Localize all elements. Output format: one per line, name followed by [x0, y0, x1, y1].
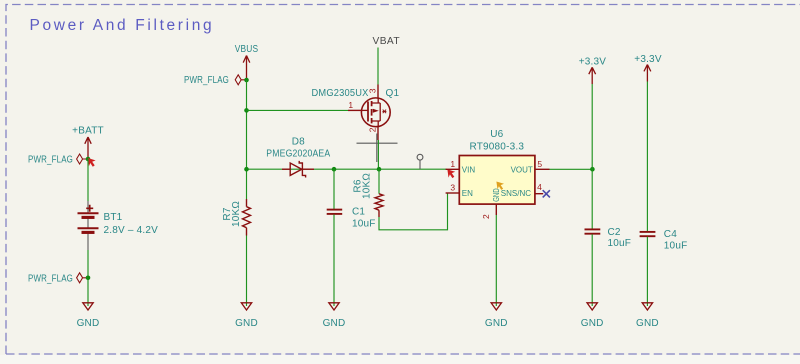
- svg-text:C4: C4: [664, 229, 677, 240]
- svg-text:VIN: VIN: [462, 166, 476, 175]
- resistor R7: [222, 199, 251, 236]
- svg-text:+BATT: +BATT: [72, 126, 104, 137]
- svg-text:GND: GND: [235, 318, 258, 329]
- svg-text:GND: GND: [77, 318, 100, 329]
- wire +3.3V to C4: [646, 82, 648, 232]
- graphic cross (black): [357, 134, 398, 163]
- wire to Q1 gate: [247, 109, 349, 111]
- svg-text:+3.3V: +3.3V: [579, 56, 607, 67]
- power symbol VBUS: [235, 44, 259, 80]
- svg-text:PWR_FLAG: PWR_FLAG: [28, 273, 73, 284]
- svg-text:2: 2: [481, 214, 491, 219]
- svg-text:C1: C1: [352, 207, 365, 218]
- capacitor C1: [327, 169, 376, 306]
- svg-text:10uF: 10uF: [352, 219, 376, 230]
- PWR_FLAG (battery bottom): [28, 273, 88, 285]
- svg-text:2.8V – 4.2V: 2.8V – 4.2V: [104, 225, 159, 236]
- junction (rail at Q1/R6): [377, 167, 382, 172]
- wire VBUS vertical: [246, 80, 248, 199]
- wire batt top: [87, 159, 89, 201]
- svg-text:BT1: BT1: [104, 212, 123, 223]
- ERC marker (orange arrow): [496, 182, 504, 190]
- svg-text:5: 5: [537, 159, 542, 169]
- transistor Q1 DMG2305UX: [312, 85, 400, 141]
- svg-text:Power And Filtering: Power And Filtering: [30, 17, 215, 34]
- wire R7 to GND: [246, 236, 248, 307]
- svg-text:1: 1: [348, 100, 353, 110]
- wire Q1 drain down: [377, 140, 379, 169]
- pin 3 EN: [446, 192, 460, 194]
- ERC marker (red arrow at +BATT): [88, 158, 96, 167]
- wire VBAT: [377, 48, 379, 85]
- svg-text:C2: C2: [608, 227, 621, 238]
- svg-text:U6: U6: [490, 129, 503, 140]
- PWR_FLAG (battery top): [28, 154, 88, 166]
- junction (VBUS to Q1): [244, 108, 249, 113]
- svg-text:2: 2: [368, 127, 378, 132]
- power symbol +3.3V (C2): [579, 56, 607, 84]
- PWR_FLAG (VBUS): [184, 75, 247, 86]
- wire +3.3V to C2: [591, 84, 593, 229]
- svg-text:GND: GND: [581, 318, 604, 329]
- junction (batt top): [86, 157, 91, 162]
- junction (rail at VBUS): [244, 167, 249, 172]
- svg-text:GND: GND: [323, 318, 346, 329]
- power symbol +BATT: [72, 126, 104, 160]
- svg-text:3: 3: [368, 88, 378, 93]
- svg-text:PWR_FLAG: PWR_FLAG: [28, 155, 73, 166]
- svg-text:10KΩ: 10KΩ: [362, 173, 373, 199]
- junction (VBUS flag): [244, 78, 249, 83]
- junction (VOUT/C2): [590, 167, 595, 172]
- diode D8 PMEG2020AEA: [266, 137, 330, 178]
- capacitor C4: [640, 229, 688, 306]
- wire U6 GND: [495, 215, 497, 306]
- power symbol +3.3V (C4): [634, 54, 662, 82]
- dangling wire circle: [417, 154, 423, 169]
- wire VOUT to C2: [550, 168, 593, 170]
- svg-text:3: 3: [450, 182, 455, 192]
- svg-text:D8: D8: [292, 137, 305, 148]
- junction (batt bottom): [86, 276, 91, 281]
- svg-text:+3.3V: +3.3V: [634, 54, 662, 65]
- pin 4 SNS/NC: [535, 193, 543, 195]
- ground (U6): [485, 303, 508, 329]
- svg-text:10KΩ: 10KΩ: [231, 201, 242, 227]
- svg-text:VBUS: VBUS: [235, 44, 259, 55]
- svg-text:GND: GND: [636, 318, 659, 329]
- svg-text:VBAT: VBAT: [373, 36, 401, 47]
- ground (R7): [235, 303, 258, 329]
- svg-text:PWR_FLAG: PWR_FLAG: [184, 75, 229, 86]
- svg-text:1: 1: [450, 159, 455, 169]
- capacitor C2: [585, 227, 632, 306]
- ground (battery): [77, 303, 100, 329]
- svg-text:VOUT: VOUT: [511, 166, 533, 175]
- resistor R6: [353, 169, 384, 217]
- ground (C2): [581, 303, 604, 329]
- svg-text:4: 4: [537, 182, 542, 192]
- junction (rail at C1): [332, 167, 337, 172]
- battery BT1: [78, 201, 159, 250]
- pin 5 VOUT: [535, 168, 550, 170]
- wire R6 to EN: [379, 193, 448, 230]
- svg-text:RT9080-3.3: RT9080-3.3: [469, 142, 524, 153]
- pin 1 VIN: [446, 168, 460, 170]
- svg-text:10uF: 10uF: [664, 241, 688, 252]
- svg-text:10uF: 10uF: [608, 238, 632, 249]
- wire batt bottom: [87, 250, 89, 306]
- pin 2 GND: [495, 204, 497, 215]
- svg-text:GND: GND: [492, 188, 501, 202]
- ground (C4): [636, 303, 659, 329]
- ground (C1): [323, 303, 346, 329]
- ERC marker (red arrow at VIN): [447, 169, 455, 178]
- svg-text:EN: EN: [462, 189, 473, 198]
- svg-text:PMEG2020AEA: PMEG2020AEA: [266, 148, 330, 159]
- svg-text:GND: GND: [485, 318, 508, 329]
- svg-text:Q1: Q1: [386, 88, 400, 99]
- op-amp U6 RT9080-3.3: [446, 129, 550, 219]
- svg-text:DMG2305UX: DMG2305UX: [312, 88, 369, 99]
- svg-text:SNS/NC: SNS/NC: [501, 189, 531, 198]
- main rail wire: [247, 168, 447, 170]
- no-connect X (pin 4): [543, 190, 550, 197]
